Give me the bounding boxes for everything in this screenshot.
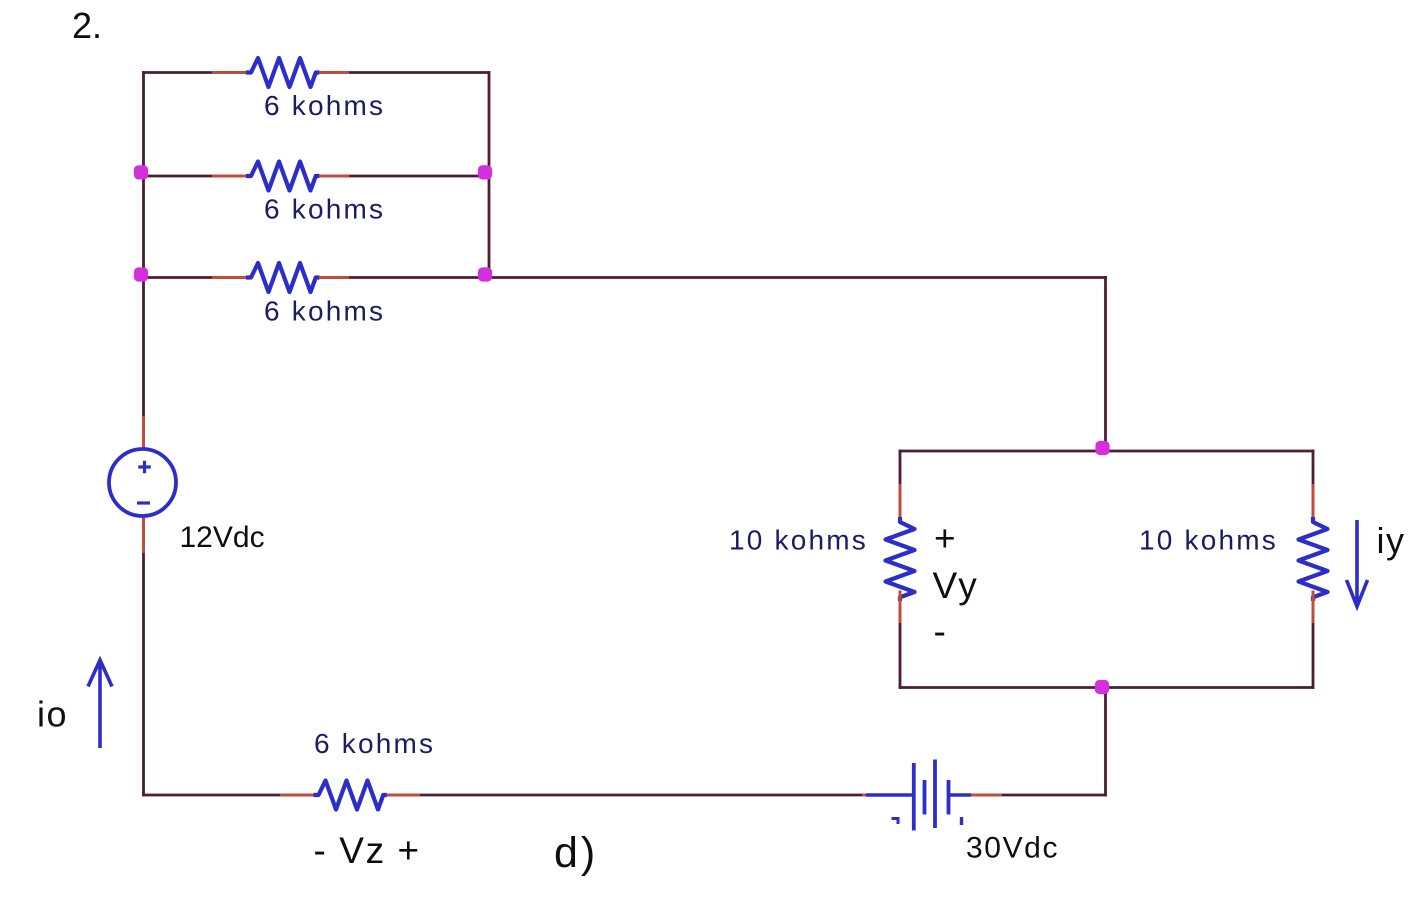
- svg-text:io: io: [37, 694, 68, 735]
- svg-text:30Vdc: 30Vdc: [966, 832, 1059, 865]
- junction dot node right branch3: [478, 267, 492, 281]
- pin stub orange R5 bottom: [899, 591, 902, 624]
- wire sub-circuit right rail lower: [1312, 623, 1315, 689]
- resistor R3 6 kohms (lower, horizontal): [246, 263, 320, 292]
- voltage source V1 12Vdc circle: [109, 449, 176, 516]
- pin stub orange R3 right: [319, 276, 349, 279]
- pin stub orange R1 right: [319, 71, 349, 74]
- svg-text:10 kohms: 10 kohms: [1139, 525, 1278, 556]
- svg-text:- Vz +: - Vz +: [314, 830, 421, 871]
- svg-text:10 kohms: 10 kohms: [729, 525, 868, 556]
- wire bottom rail right segment: [1002, 794, 1107, 797]
- wire left rail upper (node A to source +): [142, 71, 145, 416]
- resistor R4 6 kohms (bottom, horizontal): [314, 781, 388, 810]
- wire bottom rail left segment: [142, 794, 280, 797]
- svg-text:iy: iy: [1377, 520, 1406, 561]
- junction dot node right branch2: [478, 165, 492, 179]
- svg-text:12Vdc: 12Vdc: [180, 521, 265, 554]
- pin stub orange battery right: [971, 794, 1002, 797]
- pin stub orange R2 right: [319, 175, 349, 178]
- junction dot node sub-circuit top: [1095, 441, 1109, 455]
- battery V2 plate short 2: [947, 780, 951, 815]
- svg-text:Vy: Vy: [933, 565, 980, 606]
- battery V2 plate long 2: [933, 760, 937, 829]
- wire sub-circuit left rail lower: [899, 623, 902, 689]
- pin stub orange R2 left: [212, 175, 246, 178]
- wire sub-circuit top rail: [899, 450, 1315, 453]
- wire vertical drop into sub-circuit top: [1104, 276, 1107, 451]
- svg-text:6 kohms: 6 kohms: [264, 296, 385, 327]
- junction dot node sub-circuit bottom: [1095, 680, 1109, 694]
- battery V2 lead right: [949, 793, 972, 796]
- voltage source V1 minus sign: [137, 501, 150, 504]
- resistor R5 10 kohms (left, vertical): [886, 517, 915, 601]
- junction dot node left branch3: [134, 267, 148, 281]
- wire bottom rail middle segment: [420, 794, 862, 797]
- resistor R1 6 kohms (top, horizontal): [246, 58, 320, 87]
- wire branch 2 right segment: [349, 175, 490, 178]
- wire vertical from sub-circuit bottom to bottom rail: [1104, 688, 1107, 797]
- svg-text:d): d): [554, 829, 598, 877]
- wire sub-circuit left rail upper stub: [899, 450, 902, 484]
- pin stub orange battery left: [862, 794, 868, 797]
- svg-text:+: +: [934, 518, 956, 559]
- junction dot node left branch2: [134, 165, 148, 179]
- svg-text:-: -: [934, 611, 946, 652]
- battery V2 minus mark: [892, 819, 900, 825]
- resistor R6 10 kohms (right, vertical): [1299, 517, 1328, 601]
- pin stub orange R1 left: [212, 71, 246, 74]
- wire top branch 1 right segment: [349, 71, 490, 74]
- wire branch 2 left segment: [142, 175, 212, 178]
- current arrow iy: [1347, 520, 1368, 607]
- wire left rail lower (source - to bottom rail): [142, 553, 145, 796]
- pin stub orange R6 bottom: [1312, 591, 1315, 624]
- pin stub orange source V1 bottom: [142, 515, 145, 553]
- wire sub-circuit bottom rail: [899, 686, 1315, 689]
- svg-text:6 kohms: 6 kohms: [314, 728, 435, 759]
- svg-text:6 kohms: 6 kohms: [264, 194, 385, 225]
- pin stub orange R6 top: [1312, 484, 1315, 517]
- pin stub orange source V1 top: [142, 416, 145, 450]
- battery V2 plate long 1: [912, 763, 916, 831]
- pin stub orange R4 left: [280, 794, 314, 797]
- pin stub orange R5 top: [899, 484, 902, 517]
- battery V2 plus mark: [960, 817, 963, 825]
- voltage source V1 plus sign: [138, 461, 150, 473]
- wire right rail of resistor bank: [488, 71, 491, 279]
- wire sub-circuit right rail upper stub: [1312, 450, 1315, 484]
- wire branch 3 left segment: [142, 276, 212, 279]
- pin stub orange R3 left: [212, 276, 246, 279]
- battery V2 plate short 1: [923, 780, 927, 815]
- svg-text:6 kohms: 6 kohms: [264, 90, 385, 121]
- wire top branch 1 left segment: [142, 71, 212, 74]
- resistor R2 6 kohms (middle, horizontal): [246, 162, 320, 191]
- battery V2 30Vdc lead left: [866, 793, 914, 796]
- current arrow io: [88, 660, 112, 748]
- wire branch 3 right segment and long wire to sub-circuit: [349, 276, 1107, 279]
- pin stub orange R4 right: [387, 794, 421, 797]
- svg-text:2.: 2.: [72, 5, 102, 46]
